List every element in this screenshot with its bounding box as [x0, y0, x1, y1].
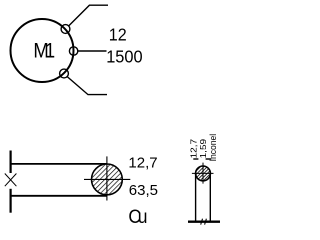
svg-text:Cu: Cu: [128, 206, 146, 228]
leader tick left: [193, 158, 198, 160]
axle end tick bottom: [10, 189, 12, 213]
copper disc (hatched section): [92, 164, 123, 195]
leader tick right: [206, 158, 212, 160]
disc vertical centerline: [106, 156, 108, 200]
base line: [188, 220, 220, 222]
wire middle lead: [78, 50, 107, 52]
wire top lead: [69, 5, 108, 26]
terminal middle brush: [69, 47, 77, 55]
axle end tick top: [10, 151, 12, 174]
svg-text:12: 12: [109, 25, 127, 45]
break mark 1: [201, 219, 203, 225]
wire bottom lead: [67, 77, 107, 95]
svg-text:Inconel: Inconel: [208, 134, 218, 162]
break mark 2: [205, 219, 207, 225]
terminal bottom brush: [60, 69, 69, 78]
svg-text:12,7: 12,7: [189, 139, 198, 159]
svg-text:63,5: 63,5: [129, 182, 158, 199]
svg-text:1,59: 1,59: [199, 139, 208, 159]
rod right side: [209, 173, 211, 221]
svg-text:12,7: 12,7: [128, 155, 157, 172]
motor M1 body circle: [11, 19, 74, 82]
inconel rod cross-section circle: [196, 166, 211, 181]
axis x mark: [5, 174, 17, 187]
rod vertical centerline: [202, 163, 204, 184]
rod horizontal centerline: [192, 172, 214, 174]
rail top: [11, 163, 107, 165]
svg-text:1500: 1500: [106, 46, 142, 67]
rail bottom: [11, 195, 107, 197]
terminal top brush: [61, 25, 70, 34]
rod left side: [195, 173, 197, 221]
disc horizontal centerline: [84, 178, 130, 180]
